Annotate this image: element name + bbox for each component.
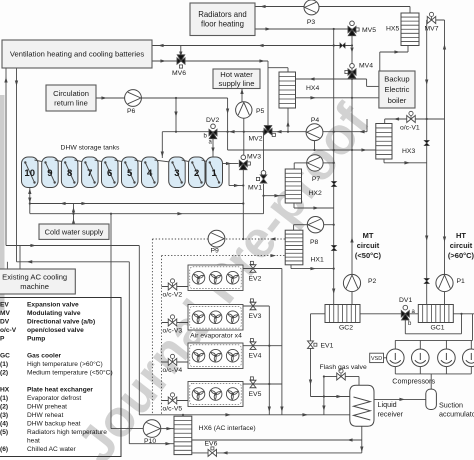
svg-text:Flash gas valve: Flash gas valve bbox=[320, 364, 367, 371]
svg-text:MV6: MV6 bbox=[172, 70, 186, 77]
svg-text:DHW storage tanks: DHW storage tanks bbox=[61, 145, 121, 152]
svg-text:(6): (6) bbox=[0, 446, 8, 453]
svg-text:4: 4 bbox=[147, 168, 153, 179]
svg-text:(2): (2) bbox=[0, 370, 8, 377]
svg-text:EV4: EV4 bbox=[249, 353, 262, 360]
svg-text:HT: HT bbox=[456, 231, 466, 240]
svg-text:EV5: EV5 bbox=[249, 391, 262, 398]
svg-text:Liquid: Liquid bbox=[378, 400, 397, 409]
svg-text:HX2: HX2 bbox=[309, 190, 322, 197]
svg-text:P: P bbox=[0, 336, 5, 343]
svg-text:boiler: boiler bbox=[388, 96, 407, 105]
svg-text:circuit: circuit bbox=[450, 241, 473, 250]
svg-text:MV5: MV5 bbox=[362, 27, 376, 34]
svg-text:Evaporator defrost: Evaporator defrost bbox=[27, 395, 81, 402]
svg-text:P3: P3 bbox=[307, 19, 316, 26]
svg-text:(2): (2) bbox=[0, 404, 8, 411]
svg-text:DHW preheat: DHW preheat bbox=[27, 404, 67, 411]
svg-text:(3): (3) bbox=[0, 412, 8, 419]
svg-text:9: 9 bbox=[47, 168, 52, 179]
svg-text:10: 10 bbox=[24, 168, 35, 179]
svg-text:(<50°C): (<50°C) bbox=[355, 251, 382, 260]
svg-text:GC2: GC2 bbox=[339, 325, 353, 332]
svg-text:o/c-V5: o/c-V5 bbox=[163, 406, 183, 413]
svg-text:Modulating valve: Modulating valve bbox=[27, 310, 81, 317]
svg-text:2: 2 bbox=[194, 168, 199, 179]
svg-text:Cold water supply: Cold water supply bbox=[45, 227, 104, 236]
svg-text:Suction: Suction bbox=[439, 401, 463, 410]
svg-text:heat: heat bbox=[27, 438, 40, 445]
svg-text:P10: P10 bbox=[144, 438, 156, 445]
svg-text:floor heating: floor heating bbox=[201, 20, 244, 29]
svg-text:circuit: circuit bbox=[357, 241, 380, 250]
svg-text:P8: P8 bbox=[310, 239, 319, 246]
svg-text:Radiators and: Radiators and bbox=[198, 10, 247, 19]
svg-text:return line: return line bbox=[54, 98, 88, 107]
svg-text:Plate heat exchanger: Plate heat exchanger bbox=[27, 387, 93, 394]
svg-text:P7: P7 bbox=[312, 176, 321, 183]
svg-text:(1): (1) bbox=[0, 395, 8, 402]
svg-text:MV: MV bbox=[0, 310, 10, 317]
svg-text:MV3: MV3 bbox=[247, 154, 261, 161]
svg-text:Ventilation heating and coolin: Ventilation heating and cooling batterie… bbox=[10, 50, 144, 59]
svg-text:Medium temperature (<50°C): Medium temperature (<50°C) bbox=[27, 369, 113, 377]
svg-text:6: 6 bbox=[107, 168, 112, 179]
svg-text:MV4: MV4 bbox=[359, 63, 373, 70]
svg-text:(4): (4) bbox=[0, 421, 8, 428]
svg-text:P9: P9 bbox=[211, 248, 220, 255]
svg-text:machine: machine bbox=[20, 282, 49, 291]
svg-text:receiver: receiver bbox=[378, 410, 404, 419]
svg-text:Hot water: Hot water bbox=[220, 70, 253, 79]
svg-text:EV1: EV1 bbox=[321, 343, 334, 350]
svg-text:Pump: Pump bbox=[27, 336, 45, 343]
svg-text:1: 1 bbox=[212, 168, 218, 179]
svg-text:GC: GC bbox=[0, 353, 10, 360]
svg-text:Gas cooler: Gas cooler bbox=[27, 353, 62, 360]
svg-text:EV6: EV6 bbox=[205, 441, 218, 448]
svg-text:Radiators high temperature: Radiators high temperature bbox=[27, 429, 107, 436]
svg-text:accumulator: accumulator bbox=[439, 410, 474, 419]
svg-text:P4: P4 bbox=[311, 117, 320, 124]
svg-text:EV: EV bbox=[0, 302, 9, 309]
svg-text:HX5: HX5 bbox=[386, 26, 399, 33]
svg-text:o/c-V2: o/c-V2 bbox=[163, 292, 183, 299]
svg-text:Compressors: Compressors bbox=[392, 377, 435, 386]
svg-text:Directional valve (a/b): Directional valve (a/b) bbox=[27, 319, 95, 326]
svg-text:o/c-V: o/c-V bbox=[0, 327, 17, 334]
svg-text:8: 8 bbox=[67, 168, 72, 179]
svg-text:DV1: DV1 bbox=[399, 297, 412, 304]
svg-text:Existing AC cooling: Existing AC cooling bbox=[2, 273, 67, 282]
svg-text:EV2: EV2 bbox=[249, 276, 262, 283]
svg-text:Circulation: Circulation bbox=[53, 89, 89, 98]
svg-text:Expansion valve: Expansion valve bbox=[27, 302, 79, 309]
svg-text:HX3: HX3 bbox=[402, 148, 415, 155]
svg-text:EV3: EV3 bbox=[249, 313, 262, 320]
svg-text:7: 7 bbox=[87, 168, 92, 179]
svg-text:P5: P5 bbox=[256, 108, 265, 115]
svg-text:P6: P6 bbox=[127, 108, 136, 115]
svg-text:MV7: MV7 bbox=[425, 26, 439, 33]
svg-text:DHW reheat: DHW reheat bbox=[27, 412, 63, 419]
svg-text:o/c-V1: o/c-V1 bbox=[400, 125, 420, 132]
svg-text:(>60°C): (>60°C) bbox=[448, 251, 474, 260]
svg-text:(1): (1) bbox=[0, 361, 8, 368]
svg-text:Chilled AC water: Chilled AC water bbox=[27, 446, 77, 453]
svg-text:o/c-V4: o/c-V4 bbox=[163, 367, 183, 374]
svg-text:High temperature (>60°C): High temperature (>60°C) bbox=[27, 360, 103, 368]
svg-text:(5): (5) bbox=[0, 429, 8, 436]
svg-text:DV: DV bbox=[0, 319, 10, 326]
svg-text:DV2: DV2 bbox=[206, 117, 219, 124]
svg-text:Air evaporator x4: Air evaporator x4 bbox=[190, 333, 242, 340]
svg-text:GC1: GC1 bbox=[431, 325, 445, 332]
svg-text:VSD: VSD bbox=[371, 356, 382, 362]
svg-text:P2: P2 bbox=[368, 278, 377, 285]
svg-text:MV1: MV1 bbox=[248, 185, 262, 192]
svg-text:o/c-V3: o/c-V3 bbox=[163, 328, 183, 335]
svg-text:DHW backup heat: DHW backup heat bbox=[27, 421, 81, 428]
svg-text:MV2: MV2 bbox=[249, 136, 263, 143]
svg-text:HX6 (AC interface): HX6 (AC interface) bbox=[199, 425, 256, 432]
svg-text:5: 5 bbox=[127, 168, 133, 179]
svg-text:HX1: HX1 bbox=[311, 257, 324, 264]
svg-text:3: 3 bbox=[174, 168, 179, 179]
svg-text:open/closed valve: open/closed valve bbox=[27, 327, 84, 334]
svg-text:supply line: supply line bbox=[219, 79, 255, 88]
svg-text:HX: HX bbox=[0, 387, 10, 394]
svg-text:P1: P1 bbox=[457, 278, 466, 285]
svg-text:HX4: HX4 bbox=[306, 85, 319, 92]
svg-text:MT: MT bbox=[363, 231, 374, 240]
svg-text:Electric: Electric bbox=[384, 85, 409, 94]
svg-text:Backup: Backup bbox=[384, 75, 409, 84]
